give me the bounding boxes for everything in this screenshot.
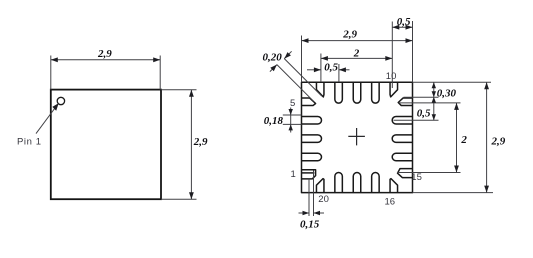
- pad 18: [353, 173, 361, 193]
- dimension line 2 (top): [321, 57, 392, 59]
- extension line pad7 center (0,5 top dim): [338, 64, 340, 82]
- pin 1 index circle: [57, 97, 64, 104]
- svg-text:2,9: 2,9: [97, 48, 112, 60]
- svg-text:0,15: 0,15: [300, 219, 320, 231]
- 0,18 arrow line: [290, 108, 292, 133]
- 0,15 extension line 1: [308, 178, 310, 216]
- arrowhead left: [51, 57, 58, 62]
- center mark: [348, 128, 365, 145]
- extension line: pad11 centre extended right: [400, 102, 461, 104]
- extension line left (top 2,9): [50, 56, 52, 90]
- 0,30 double arrow: [433, 82, 435, 97]
- svg-text:2,9: 2,9: [342, 29, 357, 41]
- extension line pad10 center (2 dim / 0,5 dim): [391, 22, 393, 89]
- svg-text:0,18: 0,18: [264, 115, 284, 127]
- pad 13: [392, 135, 412, 143]
- svg-text:0,5: 0,5: [397, 16, 411, 28]
- extension line: pad11 top edge extended right: [404, 96, 439, 98]
- pad 8: [353, 82, 361, 103]
- svg-text:0,20: 0,20: [263, 51, 283, 63]
- pad 12: [392, 116, 412, 124]
- arrowhead bottom: [189, 192, 194, 199]
- svg-text:15: 15: [411, 172, 422, 183]
- svg-text:0,5: 0,5: [324, 62, 338, 74]
- dimension line 2,9 (far right): [486, 82, 488, 192]
- pad 10 (top row, corner): [390, 82, 398, 97]
- svg-text:2: 2: [460, 134, 467, 146]
- svg-text:1: 1: [291, 169, 296, 180]
- pad 15 (right side, corner): [398, 169, 413, 178]
- extension line: pad12 centre extended right: [394, 119, 439, 121]
- arrowhead top: [189, 90, 194, 97]
- svg-text:Pin 1: Pin 1: [17, 136, 42, 147]
- pad 3: [302, 135, 322, 143]
- arrowhead right: [406, 25, 413, 30]
- extension line right (top 2,9): [159, 56, 161, 90]
- extension line: top edge extended right: [413, 81, 492, 83]
- 0,5 right double arrow: [433, 103, 435, 120]
- pad 17: [372, 173, 380, 193]
- svg-text:2: 2: [353, 48, 360, 60]
- pad 9: [372, 82, 380, 103]
- 0,20 extension line B (through pad 5 chamfer): [277, 65, 314, 102]
- arrowhead right: [385, 56, 392, 61]
- dimension line 0,5 top left tail: [307, 69, 321, 71]
- dimension line 0,5 top right tail: [339, 69, 350, 71]
- arrowhead left: [321, 56, 328, 61]
- arrowhead (points right at pad6 center): [314, 67, 321, 72]
- pad 4: [302, 116, 322, 124]
- dimension line 2,9 (top of right view): [302, 40, 413, 42]
- arrowhead left: [392, 25, 399, 30]
- extension line: pad15 top edge extended right: [398, 172, 461, 174]
- Pin 1 leader arrowhead: [52, 103, 58, 111]
- svg-text:5: 5: [290, 98, 295, 109]
- extension line pad6 center (2 dim): [320, 54, 322, 83]
- extension line bottom (right 2,9 of left view): [161, 198, 197, 200]
- extension line left (2,9 top dim): [301, 36, 303, 83]
- arrowhead (points left at pad7 center): [339, 67, 346, 72]
- pad 19: [335, 173, 343, 193]
- pad 11 (right side, corner): [398, 98, 412, 106]
- 0,15 left arrow: [299, 212, 310, 214]
- svg-text:2,9: 2,9: [491, 135, 506, 147]
- pad 20 (bottom row, corner): [316, 179, 324, 193]
- arrowhead left: [302, 38, 309, 43]
- svg-text:16: 16: [385, 196, 396, 207]
- package body outline (top view): [51, 90, 161, 200]
- arrowhead right: [153, 57, 160, 62]
- dimension line 2 (right): [456, 103, 458, 173]
- pad 5 (left side, corner): [302, 98, 316, 106]
- extension line right edge up (shared 2,9 / 0,5): [412, 21, 414, 82]
- dimension line 2,9 right of left view: [190, 90, 192, 200]
- Pin 1 leader line: [36, 105, 58, 134]
- 0,15 right arrow: [314, 212, 325, 214]
- svg-text:0,5: 0,5: [417, 108, 431, 120]
- svg-text:2,9: 2,9: [193, 136, 208, 148]
- pad 1 inner line: [302, 172, 315, 174]
- 0,20 arrow upper (points down-left to line A): [284, 51, 291, 58]
- pad 16 (bottom row, corner): [390, 179, 398, 193]
- dimension line 2,9 top-left view: [51, 59, 160, 61]
- 0,20 extension line A (through pad 6 chamfer): [284, 59, 322, 97]
- pad 2: [302, 153, 322, 161]
- 0,18 extension line lower: [283, 123, 302, 125]
- dimension line 0,5 (top right): [392, 26, 412, 28]
- pad 7: [335, 82, 343, 103]
- pad 1 (left side, corner): [302, 170, 316, 179]
- svg-text:20: 20: [318, 194, 329, 205]
- svg-text:10: 10: [386, 71, 397, 82]
- extension line: bottom edge extended right: [413, 192, 494, 194]
- arrowhead right: [406, 38, 413, 43]
- package body outline (bottom view): [302, 82, 413, 192]
- svg-text:0,30: 0,30: [437, 87, 457, 99]
- pad 14: [392, 153, 412, 161]
- 0,18 extension line upper: [283, 114, 302, 116]
- extension line top (right 2,9 of left view): [161, 89, 197, 91]
- 0,20 arrow lower (points up-right to line B): [270, 65, 277, 72]
- 0,15 extension line 2: [313, 171, 315, 217]
- pad 6 (top row, corner): [316, 82, 324, 97]
